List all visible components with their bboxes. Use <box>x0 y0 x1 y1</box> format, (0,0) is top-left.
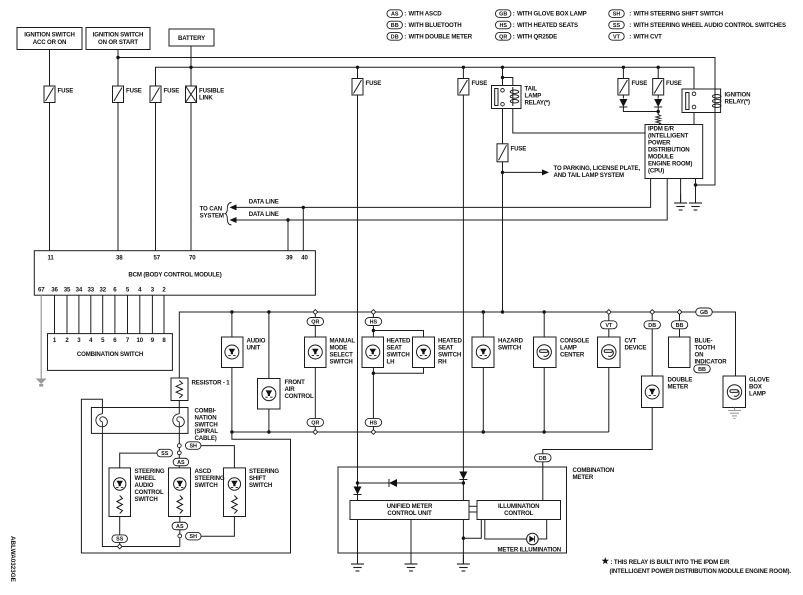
wire double meter return <box>543 408 652 501</box>
svg-text:SHIFT: SHIFT <box>249 475 266 482</box>
data line 1 arrow <box>237 206 304 208</box>
svg-text:CONTROL: CONTROL <box>135 489 165 496</box>
note asterisk <box>602 557 609 564</box>
wire BCM 35 to combination switch 2 <box>66 295 68 333</box>
wire F4 diode branch <box>357 467 359 501</box>
node HS tap <box>371 310 376 315</box>
wire audio unit return <box>231 368 233 433</box>
ground IPDM 1 <box>680 194 682 203</box>
illumination return bus <box>232 431 609 433</box>
node fuse7 tap <box>622 66 625 69</box>
svg-text:DATA LINE: DATA LINE <box>249 211 279 218</box>
node diode junction B <box>462 481 465 484</box>
node fuse8 tap <box>657 66 660 69</box>
svg-text:METER: METER <box>573 474 594 481</box>
wire ignition relay contact to IPDM <box>693 113 695 125</box>
svg-text:40: 40 <box>301 255 308 262</box>
ignition switch ACC box <box>17 28 82 50</box>
svg-text:IPDM E/R: IPDM E/R <box>648 126 675 133</box>
illumination control <box>477 501 561 520</box>
heated seat switch RH <box>413 337 435 368</box>
wire fuse F6 down to illumination bus <box>502 162 504 312</box>
wire BCM 32 to combination switch 5 <box>102 295 104 333</box>
svg-text:SWITCH: SWITCH <box>498 345 521 352</box>
bus B battery feed <box>156 67 695 89</box>
svg-text:WHEEL: WHEEL <box>135 475 157 482</box>
svg-text::: : <box>629 11 631 18</box>
svg-text:CONTROL: CONTROL <box>285 393 315 400</box>
svg-text:AS: AS <box>177 460 185 466</box>
svg-text:57: 57 <box>154 255 161 262</box>
svg-text:CONTROL: CONTROL <box>504 510 534 517</box>
svg-text:WITH QR25DE: WITH QR25DE <box>517 33 557 40</box>
svg-text:ON OR START: ON OR START <box>98 39 138 46</box>
wire tail relay coil feed <box>503 78 513 86</box>
node illumination branch <box>462 537 465 540</box>
wire F5 diode branch <box>462 467 464 501</box>
wire fuse8 feed <box>657 67 659 78</box>
wire manual mode branch <box>314 314 316 337</box>
wire unified ground 3 <box>462 520 464 565</box>
legend tag AS <box>387 10 403 18</box>
svg-text:BCM (BODY CONTROL MODULE): BCM (BODY CONTROL MODULE) <box>128 271 221 278</box>
svg-text:DEVICE: DEVICE <box>625 345 647 352</box>
steering wheel audio control switch <box>109 468 131 517</box>
wire heated seat branch <box>372 314 374 337</box>
node heated seat RH feed <box>372 329 375 332</box>
wire fuse F1 to BCM pin 11 <box>49 103 51 251</box>
node data line 1 to BCM 40 <box>302 206 305 209</box>
wire diode D2 down <box>657 107 659 115</box>
svg-text:DB: DB <box>539 456 547 462</box>
svg-text:SS: SS <box>161 451 169 457</box>
svg-text:WITH STEERING SHIFT SWITCH: WITH STEERING SHIFT SWITCH <box>634 11 724 18</box>
wire BCM 4 to combination switch 10 <box>139 295 141 333</box>
audio unit <box>222 337 244 368</box>
wire steering shift return <box>201 517 234 537</box>
svg-text:: THIS RELAY IS BUILT INTO THE: : THIS RELAY IS BUILT INTO THE IPDM E/R <box>611 559 731 566</box>
svg-text:39: 39 <box>286 255 293 262</box>
wire fuse5 feed <box>462 67 464 78</box>
node SH lower tap <box>178 534 182 538</box>
svg-text:CABLE): CABLE) <box>195 435 217 442</box>
ASCD steering switch <box>169 468 191 517</box>
wire to parking system arrow <box>503 171 543 173</box>
wire ASCD return <box>179 517 181 547</box>
ignition relay <box>682 89 721 113</box>
ground arrow BCM 67 <box>36 379 47 385</box>
ignition switch ON/START box <box>86 28 150 50</box>
wire heated seat RH return <box>373 368 423 374</box>
svg-text:32: 32 <box>99 287 106 294</box>
wire fuse F3 to BCM pin 57 <box>155 103 157 251</box>
svg-text:WITH GLOVE BOX LAMP: WITH GLOVE BOX LAMP <box>517 11 587 18</box>
fuse F5 <box>458 79 469 96</box>
wire hazard return <box>482 368 484 433</box>
svg-text:TAIL: TAIL <box>525 86 538 93</box>
wire BCM 2 to combination switch 8 <box>163 295 165 333</box>
tag QR upper <box>307 318 324 326</box>
svg-text:STEERING: STEERING <box>195 475 225 482</box>
svg-text:GLOVE: GLOVE <box>749 377 770 384</box>
svg-text:COMBINATION SWITCH: COMBINATION SWITCH <box>77 351 143 358</box>
svg-text:DATA LINE: DATA LINE <box>249 198 279 205</box>
node tail relay branch <box>501 76 504 79</box>
wire IPDM ground 2 <box>695 179 697 204</box>
legend tag VT <box>609 33 625 41</box>
node hazard tap <box>482 310 485 313</box>
svg-text:VT: VT <box>613 34 621 40</box>
svg-text::: : <box>513 11 515 18</box>
legend tag BB <box>387 21 403 29</box>
svg-text:BATTERY: BATTERY <box>178 35 205 42</box>
node BB tap <box>677 310 682 315</box>
fuse F3 <box>150 86 161 103</box>
svg-text:35: 35 <box>64 287 71 294</box>
svg-text:LAMP: LAMP <box>560 345 577 352</box>
svg-text:RELAY(*): RELAY(*) <box>725 99 750 106</box>
wire fuse F5 to combination meter <box>462 95 464 467</box>
svg-text:WITH CVT: WITH CVT <box>634 33 663 40</box>
front air control <box>258 379 281 410</box>
node audio return <box>230 430 233 433</box>
tag VT <box>601 321 618 329</box>
wire heated seat LH return <box>372 368 374 431</box>
svg-text:WITH BLUETOOTH: WITH BLUETOOTH <box>409 22 462 29</box>
svg-text:MANUAL: MANUAL <box>330 338 356 345</box>
svg-text:UNIFIED METER: UNIFIED METER <box>387 503 433 510</box>
svg-text::: : <box>513 33 515 40</box>
wire fuse F8 to diode <box>657 95 659 99</box>
wire front air return <box>268 409 270 432</box>
svg-text:34: 34 <box>76 287 83 294</box>
svg-text:(INTELLIGENT POWER DISTRIBUTIO: (INTELLIGENT POWER DISTRIBUTION MODULE E… <box>610 568 792 575</box>
node SS join <box>117 544 122 549</box>
svg-text:36: 36 <box>51 287 58 294</box>
wire bluetooth branch <box>679 314 681 337</box>
wire tail relay coil to IPDM <box>513 109 645 134</box>
node QR tap <box>313 310 318 315</box>
wire battery down <box>190 46 192 86</box>
fusible link <box>186 86 197 103</box>
svg-text:11: 11 <box>48 255 55 262</box>
tag BB lower <box>694 365 711 373</box>
svg-text:RESISTOR - 1: RESISTOR - 1 <box>192 380 231 387</box>
legend tag QR <box>495 33 511 41</box>
ground unified 3 <box>462 555 464 564</box>
node tail relay tap <box>501 66 504 69</box>
wire fuse F2 to BCM pin 38 <box>117 103 119 251</box>
wire ignition relay coil return <box>696 110 716 185</box>
legend tag SH <box>609 10 625 18</box>
wire front air branch <box>268 312 270 379</box>
spiral cable left spiral <box>96 414 108 427</box>
node data line 2 to BCM 39 <box>286 218 289 221</box>
node parking branch <box>501 171 504 174</box>
bus A from ignition ON/START <box>118 58 715 92</box>
coil link into IPDM <box>656 115 661 125</box>
node VT tap <box>606 310 611 315</box>
wire fuse F4 to combination meter <box>357 95 359 467</box>
tag GB on bus <box>696 308 713 316</box>
node SS tap <box>177 451 181 455</box>
double meter <box>642 376 664 408</box>
svg-text:SWITCH: SWITCH <box>330 359 353 366</box>
legend tag SS <box>609 21 625 29</box>
svg-text:FUSE: FUSE <box>126 88 142 95</box>
wire bus B to tail lamp relay <box>502 67 504 85</box>
svg-text:AS: AS <box>176 524 184 530</box>
wire console return <box>543 368 545 433</box>
node HS return <box>371 430 376 435</box>
svg-text:SYSTEM: SYSTEM <box>200 212 224 219</box>
svg-text:ABLWA0323GE: ABLWA0323GE <box>9 536 16 582</box>
tag DB upper <box>644 321 661 329</box>
wire BCM 3 to combination switch 9 <box>151 295 153 333</box>
node battery on bus B <box>189 66 192 69</box>
svg-text:QR: QR <box>311 320 319 326</box>
tag SH upper <box>185 442 201 450</box>
diode D4 <box>459 472 467 480</box>
svg-text:MODE: MODE <box>330 345 348 352</box>
wire tail relay contact to fuse F6 <box>502 109 504 144</box>
node console tap <box>543 310 546 313</box>
wire fusible link to BCM pin 70 <box>190 103 192 251</box>
svg-text:SWITCH: SWITCH <box>135 496 158 503</box>
node front air return <box>267 430 270 433</box>
svg-text:SWITCH: SWITCH <box>249 482 272 489</box>
node QR return <box>313 430 318 435</box>
diode D2 <box>654 99 662 107</box>
legend tag GB <box>495 10 511 18</box>
svg-text:WITH ASCD: WITH ASCD <box>409 11 443 18</box>
wire BCM 36 to combination switch 1 <box>54 295 56 333</box>
wire glove box ground <box>734 408 736 411</box>
wire BCM 6 to combination switch 6 <box>114 295 116 333</box>
svg-text:HAZARD: HAZARD <box>498 338 524 345</box>
svg-text:TOOTH: TOOTH <box>695 345 715 352</box>
tag QR lower <box>307 418 324 426</box>
wire switch common to left spiral <box>102 433 179 546</box>
svg-text:67: 67 <box>38 287 45 294</box>
fuse F7 <box>618 79 629 96</box>
svg-text:AIR: AIR <box>285 386 296 393</box>
node diode junction <box>657 110 660 113</box>
wire illumination control feed <box>463 520 481 539</box>
illumination supply bus <box>179 312 735 378</box>
diode D3 <box>354 487 362 495</box>
wire right spiral to switch column <box>178 433 180 468</box>
svg-text:FUSIBLE: FUSIBLE <box>199 88 224 95</box>
svg-text:RH: RH <box>438 359 447 366</box>
cross diode link <box>358 482 464 484</box>
wire ignition ON/START down <box>117 50 119 87</box>
svg-text:33: 33 <box>88 287 95 294</box>
ground unified 1 <box>357 555 359 564</box>
fuse F1 <box>44 86 55 103</box>
node front air tap <box>267 310 270 313</box>
tag HS upper <box>365 318 382 326</box>
glove box lamp <box>723 376 746 408</box>
svg-text:ACC OR ON: ACC OR ON <box>33 39 67 46</box>
wire unified ground 2 <box>410 520 412 565</box>
svg-text:FUSE: FUSE <box>366 80 382 87</box>
tail lamp relay <box>492 86 522 109</box>
fuse F2 <box>113 86 124 103</box>
svg-text::: : <box>404 11 406 18</box>
svg-text:38: 38 <box>116 255 123 262</box>
svg-text:(CPU): (CPU) <box>648 168 664 175</box>
svg-text:SH: SH <box>613 12 621 18</box>
svg-text:SWITCH: SWITCH <box>387 352 410 359</box>
wire fuse7 feed <box>622 67 624 78</box>
svg-text:CENTER: CENTER <box>560 352 585 359</box>
ground IPDM 2 <box>695 194 697 203</box>
svg-text:LAMP: LAMP <box>525 93 542 100</box>
svg-text:CONTROL UNIT: CONTROL UNIT <box>387 510 432 517</box>
svg-text:FUSE: FUSE <box>164 88 180 95</box>
svg-text:FUSE: FUSE <box>632 80 648 87</box>
bluetooth on indicator <box>669 337 691 368</box>
wire BCM 33 to combination switch 4 <box>90 295 92 333</box>
combination switch box <box>48 334 173 371</box>
node coil return junction <box>694 183 697 186</box>
svg-text:SEAT: SEAT <box>438 345 454 352</box>
svg-text:AND TAIL LAMP SYSTEM: AND TAIL LAMP SYSTEM <box>554 172 625 179</box>
wire fuse4 feed <box>357 67 359 78</box>
svg-text:SH: SH <box>190 534 198 540</box>
svg-text:STEERING: STEERING <box>135 468 165 475</box>
node diode junction A <box>356 481 359 484</box>
svg-text:WITH DOUBLE METER: WITH DOUBLE METER <box>409 33 473 40</box>
wire BCM 67 to ground (gray) <box>40 295 42 378</box>
svg-text:LINK: LINK <box>199 95 213 102</box>
fuse F6 <box>497 144 508 162</box>
wire heated seat RH feed <box>373 331 423 338</box>
svg-text:ON: ON <box>695 352 704 359</box>
svg-text:BLUE-: BLUE- <box>695 338 713 345</box>
svg-text:MODULE: MODULE <box>648 154 674 161</box>
svg-text::: : <box>629 22 631 29</box>
wire fuse F7 to diode <box>622 95 624 99</box>
svg-text:AUDIO: AUDIO <box>247 338 266 345</box>
svg-text:COMBINATION: COMBINATION <box>573 467 615 474</box>
wire CVT branch <box>608 314 610 337</box>
battery box <box>169 29 214 46</box>
fuse F4 <box>352 79 363 96</box>
node feed from tail relay fuse <box>501 310 504 313</box>
svg-text:LH: LH <box>387 359 395 366</box>
wire IPDM CAN-H data line <box>303 179 650 208</box>
manual mode select switch <box>305 337 327 368</box>
svg-text:QR: QR <box>499 34 507 40</box>
svg-text:SH: SH <box>189 444 197 450</box>
unified meter control unit <box>350 501 469 520</box>
node audio unit tap <box>230 310 233 313</box>
svg-text:BB: BB <box>391 23 399 29</box>
svg-text:CONSOLE: CONSOLE <box>560 338 589 345</box>
svg-text:ASCD: ASCD <box>195 468 212 475</box>
svg-text:GB: GB <box>499 12 507 18</box>
svg-text:SS: SS <box>613 23 621 29</box>
wire BCM 5 to combination switch 7 <box>127 295 129 333</box>
svg-text:TO CAN: TO CAN <box>200 205 222 212</box>
svg-text:BOX: BOX <box>749 384 763 391</box>
combination switch spiral cable box <box>91 408 188 434</box>
svg-text:ENGINE ROOM): ENGINE ROOM) <box>648 161 692 168</box>
svg-text::: : <box>629 33 631 40</box>
tag BB upper <box>671 321 688 329</box>
wire SH to steering shift switch <box>201 446 234 468</box>
svg-text:DB: DB <box>391 34 399 40</box>
svg-text::: : <box>513 22 515 29</box>
svg-text:QR: QR <box>311 420 319 426</box>
node SH tap <box>177 444 181 448</box>
console lamp center <box>534 337 557 368</box>
wire meter illumination loop <box>485 520 527 540</box>
wire double meter branch <box>651 314 653 376</box>
node fuse4 tap <box>356 66 359 69</box>
fuse F8 <box>653 79 664 96</box>
tag DB lower <box>535 454 552 462</box>
wire manual mode return <box>314 368 316 431</box>
meter illumination lamp <box>527 533 539 545</box>
svg-text:IGNITION SWITCH: IGNITION SWITCH <box>93 32 144 39</box>
connector unified-illumination <box>469 505 477 507</box>
tag SS upper <box>157 449 173 457</box>
svg-text:HS: HS <box>370 320 378 326</box>
node bus A tap <box>116 56 119 59</box>
svg-text:IGNITION SWITCH: IGNITION SWITCH <box>24 32 75 39</box>
wire hazard branch <box>482 312 484 337</box>
wire console branch <box>543 312 545 337</box>
wire ignition ACC to fuse <box>49 50 51 87</box>
wire BCM pin 40 <box>302 207 304 250</box>
node fuse5 tap <box>462 66 465 69</box>
wire BCM 34 to combination switch 3 <box>78 295 80 333</box>
node DB tap <box>650 310 655 315</box>
ground glove box lamp <box>728 410 741 412</box>
svg-text:IGNITION: IGNITION <box>725 92 751 99</box>
diode D1 <box>619 99 627 107</box>
wire SS to steering wheel audio switch <box>120 453 157 468</box>
wire return bus to spiral cable loop <box>81 399 290 553</box>
svg-text:METER: METER <box>668 384 689 391</box>
CVT device <box>598 337 621 368</box>
heated seat switch LH <box>362 337 384 368</box>
tag HS lower <box>365 418 382 426</box>
svg-text:BB: BB <box>676 323 684 329</box>
svg-text:DOUBLE: DOUBLE <box>668 377 693 384</box>
svg-text:HEATED: HEATED <box>438 338 462 345</box>
BCM body control module <box>34 251 315 296</box>
svg-text:HEATED: HEATED <box>387 338 411 345</box>
svg-text:SWITCH: SWITCH <box>438 352 461 359</box>
svg-text::: : <box>404 22 406 29</box>
node hazard return <box>482 430 485 433</box>
spiral cable right spiral <box>173 414 184 427</box>
hazard switch <box>472 337 494 368</box>
svg-text:SELECT: SELECT <box>330 352 354 359</box>
svg-text:LAMP: LAMP <box>749 391 766 398</box>
wire audio switch return <box>119 517 121 547</box>
svg-text:DISTRIBUTION: DISTRIBUTION <box>648 147 690 154</box>
ground unified 2 <box>410 555 412 564</box>
svg-text:UNIT: UNIT <box>247 345 261 352</box>
wire CVT return <box>608 368 610 433</box>
svg-text:TO PARKING, LICENSE PLATE,: TO PARKING, LICENSE PLATE, <box>554 165 641 172</box>
tag SH lower <box>186 532 202 540</box>
